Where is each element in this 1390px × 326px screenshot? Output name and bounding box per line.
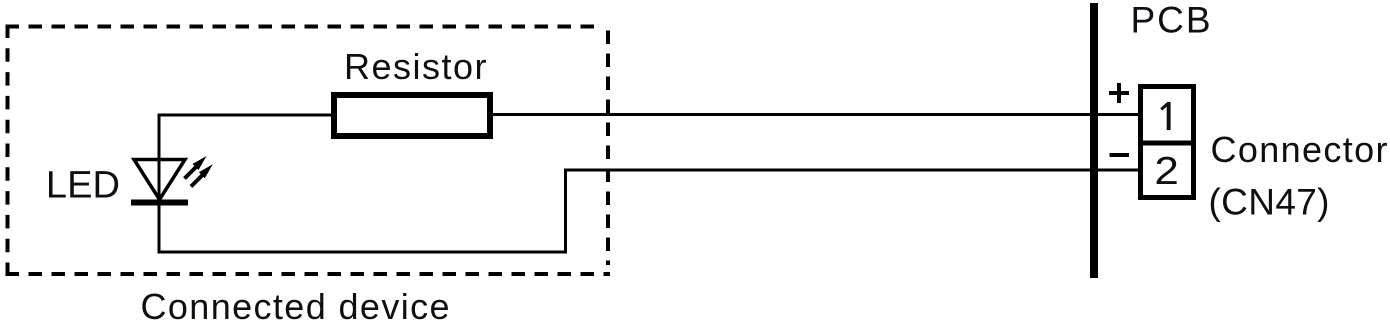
wire: top horizontal from LED to resistor — [158, 114, 335, 117]
label: Connector — [1211, 129, 1388, 170]
svg-text:PCB: PCB — [1131, 0, 1211, 40]
pin number 2 — [1154, 148, 1179, 192]
LED light emission arrow 1 — [185, 156, 207, 179]
LED light emission arrow 2 — [191, 164, 213, 186]
pin number 1 — [1160, 102, 1170, 130]
PCB board edge (thick vertical line) — [1090, 3, 1098, 278]
label: (CN47) — [1209, 182, 1330, 223]
wire: resistor to connector pin 1 — [493, 113, 1138, 116]
LED cathode bar — [131, 200, 188, 206]
+ polarity mark — [1109, 83, 1129, 103]
label: PCB — [1131, 0, 1211, 40]
wire: LED anode vertical segment — [158, 114, 161, 254]
connector CN47 body — [1141, 87, 1194, 198]
label: Connected device — [141, 286, 450, 326]
svg-text:Connector: Connector — [1211, 129, 1388, 170]
resistor body — [334, 95, 490, 136]
dashed enclosure box (connected device boundary) — [6, 25, 611, 277]
&#8722; polarity mark — [1110, 153, 1130, 157]
svg-text:2: 2 — [1154, 148, 1179, 192]
LED anode triangle — [134, 160, 185, 200]
label: Resistor — [344, 46, 487, 87]
wire: vertical step segment — [564, 170, 567, 254]
svg-text:LED: LED — [46, 165, 120, 207]
label: LED — [46, 165, 120, 207]
connector divider between pin cells — [1138, 141, 1196, 146]
wire: bottom horizontal from LED cathode — [159, 251, 566, 254]
svg-text:Resistor: Resistor — [344, 46, 487, 87]
svg-text:(CN47): (CN47) — [1209, 182, 1330, 223]
wire: horizontal to connector pin 2 — [564, 169, 1138, 172]
svg-text:Connected device: Connected device — [141, 286, 450, 326]
